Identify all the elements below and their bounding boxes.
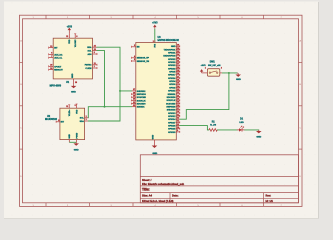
svg-text:18: 18 <box>133 92 135 94</box>
svg-text:VLED+: VLED+ <box>69 109 71 116</box>
U1 pin name VLOGIC <box>75 39 77 47</box>
svg-text:23: 23 <box>177 89 179 91</box>
svg-text:GPIO23: GPIO23 <box>168 65 176 67</box>
svg-text:3: 3 <box>86 119 87 121</box>
svg-text:+3V3: +3V3 <box>67 26 73 28</box>
power +3V3 above U1 <box>67 26 73 33</box>
wire R1 to D1 <box>217 129 237 131</box>
U3 pin GPIO5 (29) <box>169 70 180 74</box>
svg-text:38: 38 <box>177 45 179 47</box>
led D1 <box>237 126 245 132</box>
U1 pin AD0 (9) <box>87 52 97 56</box>
svg-text:29: 29 <box>177 70 179 72</box>
U1 pin REGOUT (10) <box>49 68 64 72</box>
node junction SCL <box>104 106 106 108</box>
svg-text:SDO/SD0: SDO/SD0 <box>137 104 147 106</box>
svg-text:RXD0/GPIO3: RXD0/GPIO3 <box>163 56 176 58</box>
U3 pin SCK/CLK (20) <box>132 99 147 103</box>
svg-text:37: 37 <box>177 64 179 66</box>
U3 pin GPIO12 (14) <box>168 113 180 118</box>
svg-text:VDD: VDD <box>69 39 71 44</box>
svg-text:+3V3: +3V3 <box>201 65 207 67</box>
svg-text:GND: GND <box>236 79 241 81</box>
svg-text:25: 25 <box>177 83 179 85</box>
svg-text:GPIO19: GPIO19 <box>168 62 176 64</box>
svg-text:SW_DIP_x01: SW_DIP_x01 <box>208 65 221 67</box>
U3 pin GND bottom <box>153 134 155 144</box>
svg-text:19: 19 <box>133 95 135 97</box>
svg-text:23: 23 <box>94 49 96 51</box>
svg-text:SCK/CLK: SCK/CLK <box>137 100 146 102</box>
U1 pin SCL (23) <box>88 49 98 53</box>
svg-text:6: 6 <box>51 53 52 55</box>
svg-text:1: 1 <box>205 68 206 70</box>
svg-text:16: 16 <box>177 111 179 113</box>
resistor R1 <box>209 129 217 132</box>
node junction SDA <box>119 90 121 92</box>
svg-text:1: 1 <box>94 66 95 68</box>
svg-text:GPIO5: GPIO5 <box>169 72 176 74</box>
svg-text:10: 10 <box>50 68 52 70</box>
U3 pin SCS/CMD (19) <box>132 95 147 99</box>
wire DW1 pin2 to GND and U3 GPIO <box>180 73 237 119</box>
svg-text:GPIO13: GPIO13 <box>168 113 176 115</box>
U2 pin SCL (2) <box>80 116 89 120</box>
svg-text:+3V3: +3V3 <box>152 23 158 25</box>
svg-text:18: 18 <box>177 105 179 107</box>
U1 pin SDA (24) <box>87 44 97 49</box>
ground below U1 <box>71 85 76 94</box>
svg-text:R_US: R_US <box>210 125 216 127</box>
wire D1 to ground <box>245 129 259 131</box>
U1 pin VDD (13) <box>66 33 69 38</box>
svg-text:31: 31 <box>177 60 179 62</box>
U3 pin SDO/SD0 (21) <box>167 95 180 99</box>
switch DW1 reference <box>210 62 216 64</box>
svg-text:GPIO27: GPIO27 <box>168 122 176 124</box>
svg-text:GND: GND <box>72 73 74 78</box>
U3 pin 3V3 (2) <box>153 40 157 47</box>
U3 value ESP32-WROOM-32 <box>158 39 180 42</box>
svg-text:2: 2 <box>153 41 154 43</box>
U1 pin VLOGIC (8) <box>74 34 77 38</box>
ground below U2 <box>74 142 79 151</box>
U3 pin GPIO25 (10) <box>168 127 180 131</box>
U1 reference <box>66 81 70 84</box>
ground right of DW1 <box>236 73 241 81</box>
svg-text:GND: GND <box>74 149 79 151</box>
svg-text:GND: GND <box>171 46 176 48</box>
svg-text:12: 12 <box>50 46 52 48</box>
svg-text:2: 2 <box>86 116 87 118</box>
svg-text:21: 21 <box>133 102 135 104</box>
U3 pin GPIO18 (30) <box>168 67 180 71</box>
U1 pin AUX_DA (6) <box>49 53 63 57</box>
svg-text:7: 7 <box>51 56 52 58</box>
U3 pin GND (38) <box>171 45 180 49</box>
svg-text:GND: GND <box>69 134 71 139</box>
R1 reference <box>212 122 216 124</box>
svg-text:CLKIN: CLKIN <box>85 68 92 70</box>
U3 pin GPIO21 (33) <box>168 51 180 55</box>
svg-text:PGND: PGND <box>76 132 78 138</box>
svg-text:22: 22 <box>177 92 179 94</box>
U3 pin GPIO2 (24) <box>169 85 180 90</box>
switch DW1 body <box>207 69 219 77</box>
svg-text:3: 3 <box>134 45 135 47</box>
svg-text:SDI/SD1: SDI/SD1 <box>168 94 177 96</box>
svg-text:SDO/SD0: SDO/SD0 <box>167 97 177 99</box>
svg-text:LED: LED <box>239 122 244 124</box>
svg-text:17: 17 <box>177 108 179 110</box>
svg-text:DW1: DW1 <box>210 62 216 64</box>
svg-text:33: 33 <box>177 51 179 53</box>
U3 pin SENSOR_VP (4) <box>132 55 150 60</box>
svg-text:SWP/SD3: SWP/SD3 <box>166 106 176 108</box>
U2 pin PGND <box>76 132 78 142</box>
svg-text:SHD/SD2: SHD/SD2 <box>137 91 147 93</box>
svg-text:19: 19 <box>177 102 179 104</box>
wire U1 SCL to U3 SDI/SD1 and U2 SCL <box>88 51 131 118</box>
U2 pin VDD <box>75 104 79 114</box>
wire U1 SDA to U3 SHD/SD2 and U2 SDA <box>88 47 131 121</box>
svg-text:MAX30102: MAX30102 <box>45 118 58 121</box>
svg-text:30: 30 <box>177 67 179 69</box>
U3 pin SDO/SD0 (21) <box>132 102 147 106</box>
svg-text:20: 20 <box>50 65 52 67</box>
svg-text:13: 13 <box>177 118 179 120</box>
frame zone ticks and labels <box>20 15 303 207</box>
svg-text:9: 9 <box>75 105 76 107</box>
svg-text:Title:: Title: <box>142 188 150 192</box>
U1 pin CPOUT (20) <box>49 65 62 69</box>
svg-text:VLOGIC: VLOGIC <box>75 39 77 47</box>
svg-text:FSYNC: FSYNC <box>85 65 92 67</box>
U3 pin SCS/CMD (19) <box>166 102 180 106</box>
mcu U3 ESP32-WROOM-32 body <box>136 43 177 140</box>
svg-text:GND: GND <box>153 134 155 139</box>
svg-text:8: 8 <box>58 120 59 122</box>
sheet frame outer border <box>20 15 303 206</box>
D1 value LED <box>239 122 244 124</box>
svg-text:20: 20 <box>133 99 135 101</box>
U2 pin VLED+ <box>66 105 71 116</box>
svg-text:9: 9 <box>177 130 178 132</box>
U3 pin SWP/SD3 (18) <box>166 105 179 109</box>
svg-text:GPIO16: GPIO16 <box>168 78 176 80</box>
svg-text:28: 28 <box>177 73 179 75</box>
U3 pin GPIO14 (13) <box>168 118 180 122</box>
U3 pin GPIO15 (23) <box>168 89 180 93</box>
U2 pin GND <box>69 134 71 143</box>
svg-text:GND: GND <box>71 91 76 93</box>
svg-text:11: 11 <box>94 63 96 65</box>
svg-text:ESP32-WROOM-32: ESP32-WROOM-32 <box>158 39 180 42</box>
svg-text:MPU-6050: MPU-6050 <box>50 85 62 88</box>
svg-text:2: 2 <box>221 68 222 70</box>
U1 pin FSYNC (11) <box>85 63 97 67</box>
svg-text:22: 22 <box>133 105 135 107</box>
svg-text:SDI/SD1: SDI/SD1 <box>137 107 146 109</box>
U1 pin GND (18) <box>72 73 77 85</box>
U3 pin SCK/CLK (20) <box>167 98 180 102</box>
U3 pin SENSOR_VN (5) <box>132 59 150 63</box>
svg-text:GPIO0: GPIO0 <box>169 84 176 86</box>
U3 pin GPIO4 (26) <box>169 79 180 83</box>
svg-text:SCK/CLK: SCK/CLK <box>167 100 176 102</box>
svg-text:GPIO33: GPIO33 <box>168 132 176 134</box>
svg-text:26: 26 <box>177 79 179 81</box>
svg-text:8: 8 <box>76 36 77 38</box>
U3 pin SWP/SD3 (18) <box>132 92 147 96</box>
U1 value MPU-6050 <box>50 85 62 88</box>
DW1 pin 2 <box>220 68 223 73</box>
U2 reference <box>47 115 51 118</box>
svg-text:27: 27 <box>177 76 179 78</box>
U3 pin GPIO33 (9) <box>168 130 180 134</box>
svg-text:GND: GND <box>152 153 157 155</box>
ic U1 MPU-6050 body <box>53 38 92 79</box>
svg-text:GPIO12: GPIO12 <box>168 116 176 118</box>
svg-text:GPIO21: GPIO21 <box>168 53 176 55</box>
svg-text:VDD: VDD <box>76 109 78 114</box>
sheet frame inner border <box>23 19 299 203</box>
svg-text:SHD/SD2: SHD/SD2 <box>167 110 177 112</box>
power +3V3 at DW1 pin 1 <box>201 70 203 73</box>
U3 pin GPIO23 (37) <box>168 64 180 68</box>
svg-text:GPIO22: GPIO22 <box>168 59 176 61</box>
svg-text:GND: GND <box>256 136 261 138</box>
svg-text:20: 20 <box>177 98 179 100</box>
svg-text:SENSOR_VN: SENSOR_VN <box>137 61 150 63</box>
U3 pin SHD/SD2 (17) <box>132 89 147 93</box>
svg-text:REGOUT: REGOUT <box>54 70 63 72</box>
ground below U3 <box>152 145 157 156</box>
svg-text:GPIO15: GPIO15 <box>168 91 176 93</box>
U3 pin TXD0/GPIO1 (35) <box>164 48 180 52</box>
U3 pin GPIO16 (27) <box>168 76 180 80</box>
U3 pin GPIO22 (36) <box>168 57 180 61</box>
U2 pin INT (8) <box>56 120 65 124</box>
svg-text:13: 13 <box>66 36 68 38</box>
DW1 value SW_DIP_x01 and +3V3 label <box>201 65 222 67</box>
svg-text:17: 17 <box>133 89 135 91</box>
svg-text:35: 35 <box>177 48 179 50</box>
svg-text:SWP/SD3: SWP/SD3 <box>137 94 147 96</box>
svg-text:36: 36 <box>177 57 179 59</box>
svg-text:21: 21 <box>177 95 179 97</box>
svg-text:CPOUT: CPOUT <box>54 66 62 68</box>
U3 pin EN (3) <box>132 45 141 49</box>
U3 pin GPIO13 (16) <box>168 111 180 115</box>
U3 pin SDI/SD1 (22) <box>168 92 180 96</box>
svg-text:11: 11 <box>66 106 68 108</box>
U1 pin AUX_CL (7) <box>49 56 63 60</box>
svg-text:SCS/CMD: SCS/CMD <box>166 103 176 105</box>
node junction DW1 net <box>228 72 230 74</box>
svg-text:TXD0/GPIO1: TXD0/GPIO1 <box>164 49 177 51</box>
U1 pin INT (12) <box>49 46 59 50</box>
U3 pin GPIO19 (31) <box>168 60 180 64</box>
svg-text:SCS/CMD: SCS/CMD <box>137 97 147 99</box>
svg-text:10: 10 <box>177 127 179 129</box>
ground at D1 cathode <box>256 130 261 139</box>
R1 value R_US <box>210 125 216 127</box>
title block <box>140 155 298 203</box>
svg-text:SENSOR_VP: SENSOR_VP <box>137 58 150 60</box>
wire +3V3 to U3 <box>154 29 156 43</box>
svg-text:GPIO25: GPIO25 <box>168 129 176 131</box>
U3 pin GPIO0 (25) <box>169 83 180 87</box>
U3 pin GPIO27 (12) <box>168 121 180 125</box>
U3 reference <box>158 36 162 39</box>
svg-text:18: 18 <box>75 82 77 84</box>
D1 reference <box>240 119 244 121</box>
U2 pin SDA (3) <box>80 119 89 123</box>
sensor U2 MAX30102 body <box>60 108 85 139</box>
U3 pin GPIO26 (11) <box>168 124 180 128</box>
U3 pin GPIO17 (28) <box>168 73 180 77</box>
wire U2 GND link <box>69 141 76 143</box>
U2 value MAX30102 <box>45 118 58 121</box>
U1 pin name VDD <box>69 39 71 44</box>
svg-text:11: 11 <box>177 124 179 126</box>
U3 pin RXD0/GPIO3 (34) <box>163 53 179 58</box>
wire U3 GPIO to R1 <box>180 126 209 130</box>
svg-text:5: 5 <box>134 59 135 61</box>
svg-text:GPIO2: GPIO2 <box>169 87 176 89</box>
svg-text:GPIO26: GPIO26 <box>168 125 176 127</box>
power +3V3 above U3 <box>152 23 158 29</box>
DW1 pin 1 <box>202 68 208 73</box>
svg-text:12: 12 <box>177 121 179 123</box>
svg-text:GPIO17: GPIO17 <box>168 75 176 77</box>
U3 pin SDI/SD1 (22) <box>132 105 146 109</box>
svg-text:9: 9 <box>94 52 95 54</box>
svg-text:GPIO18: GPIO18 <box>168 68 176 70</box>
U1 pin CLKIN (1) <box>85 66 97 70</box>
U3 pin SHD/SD2 (17) <box>167 108 180 112</box>
